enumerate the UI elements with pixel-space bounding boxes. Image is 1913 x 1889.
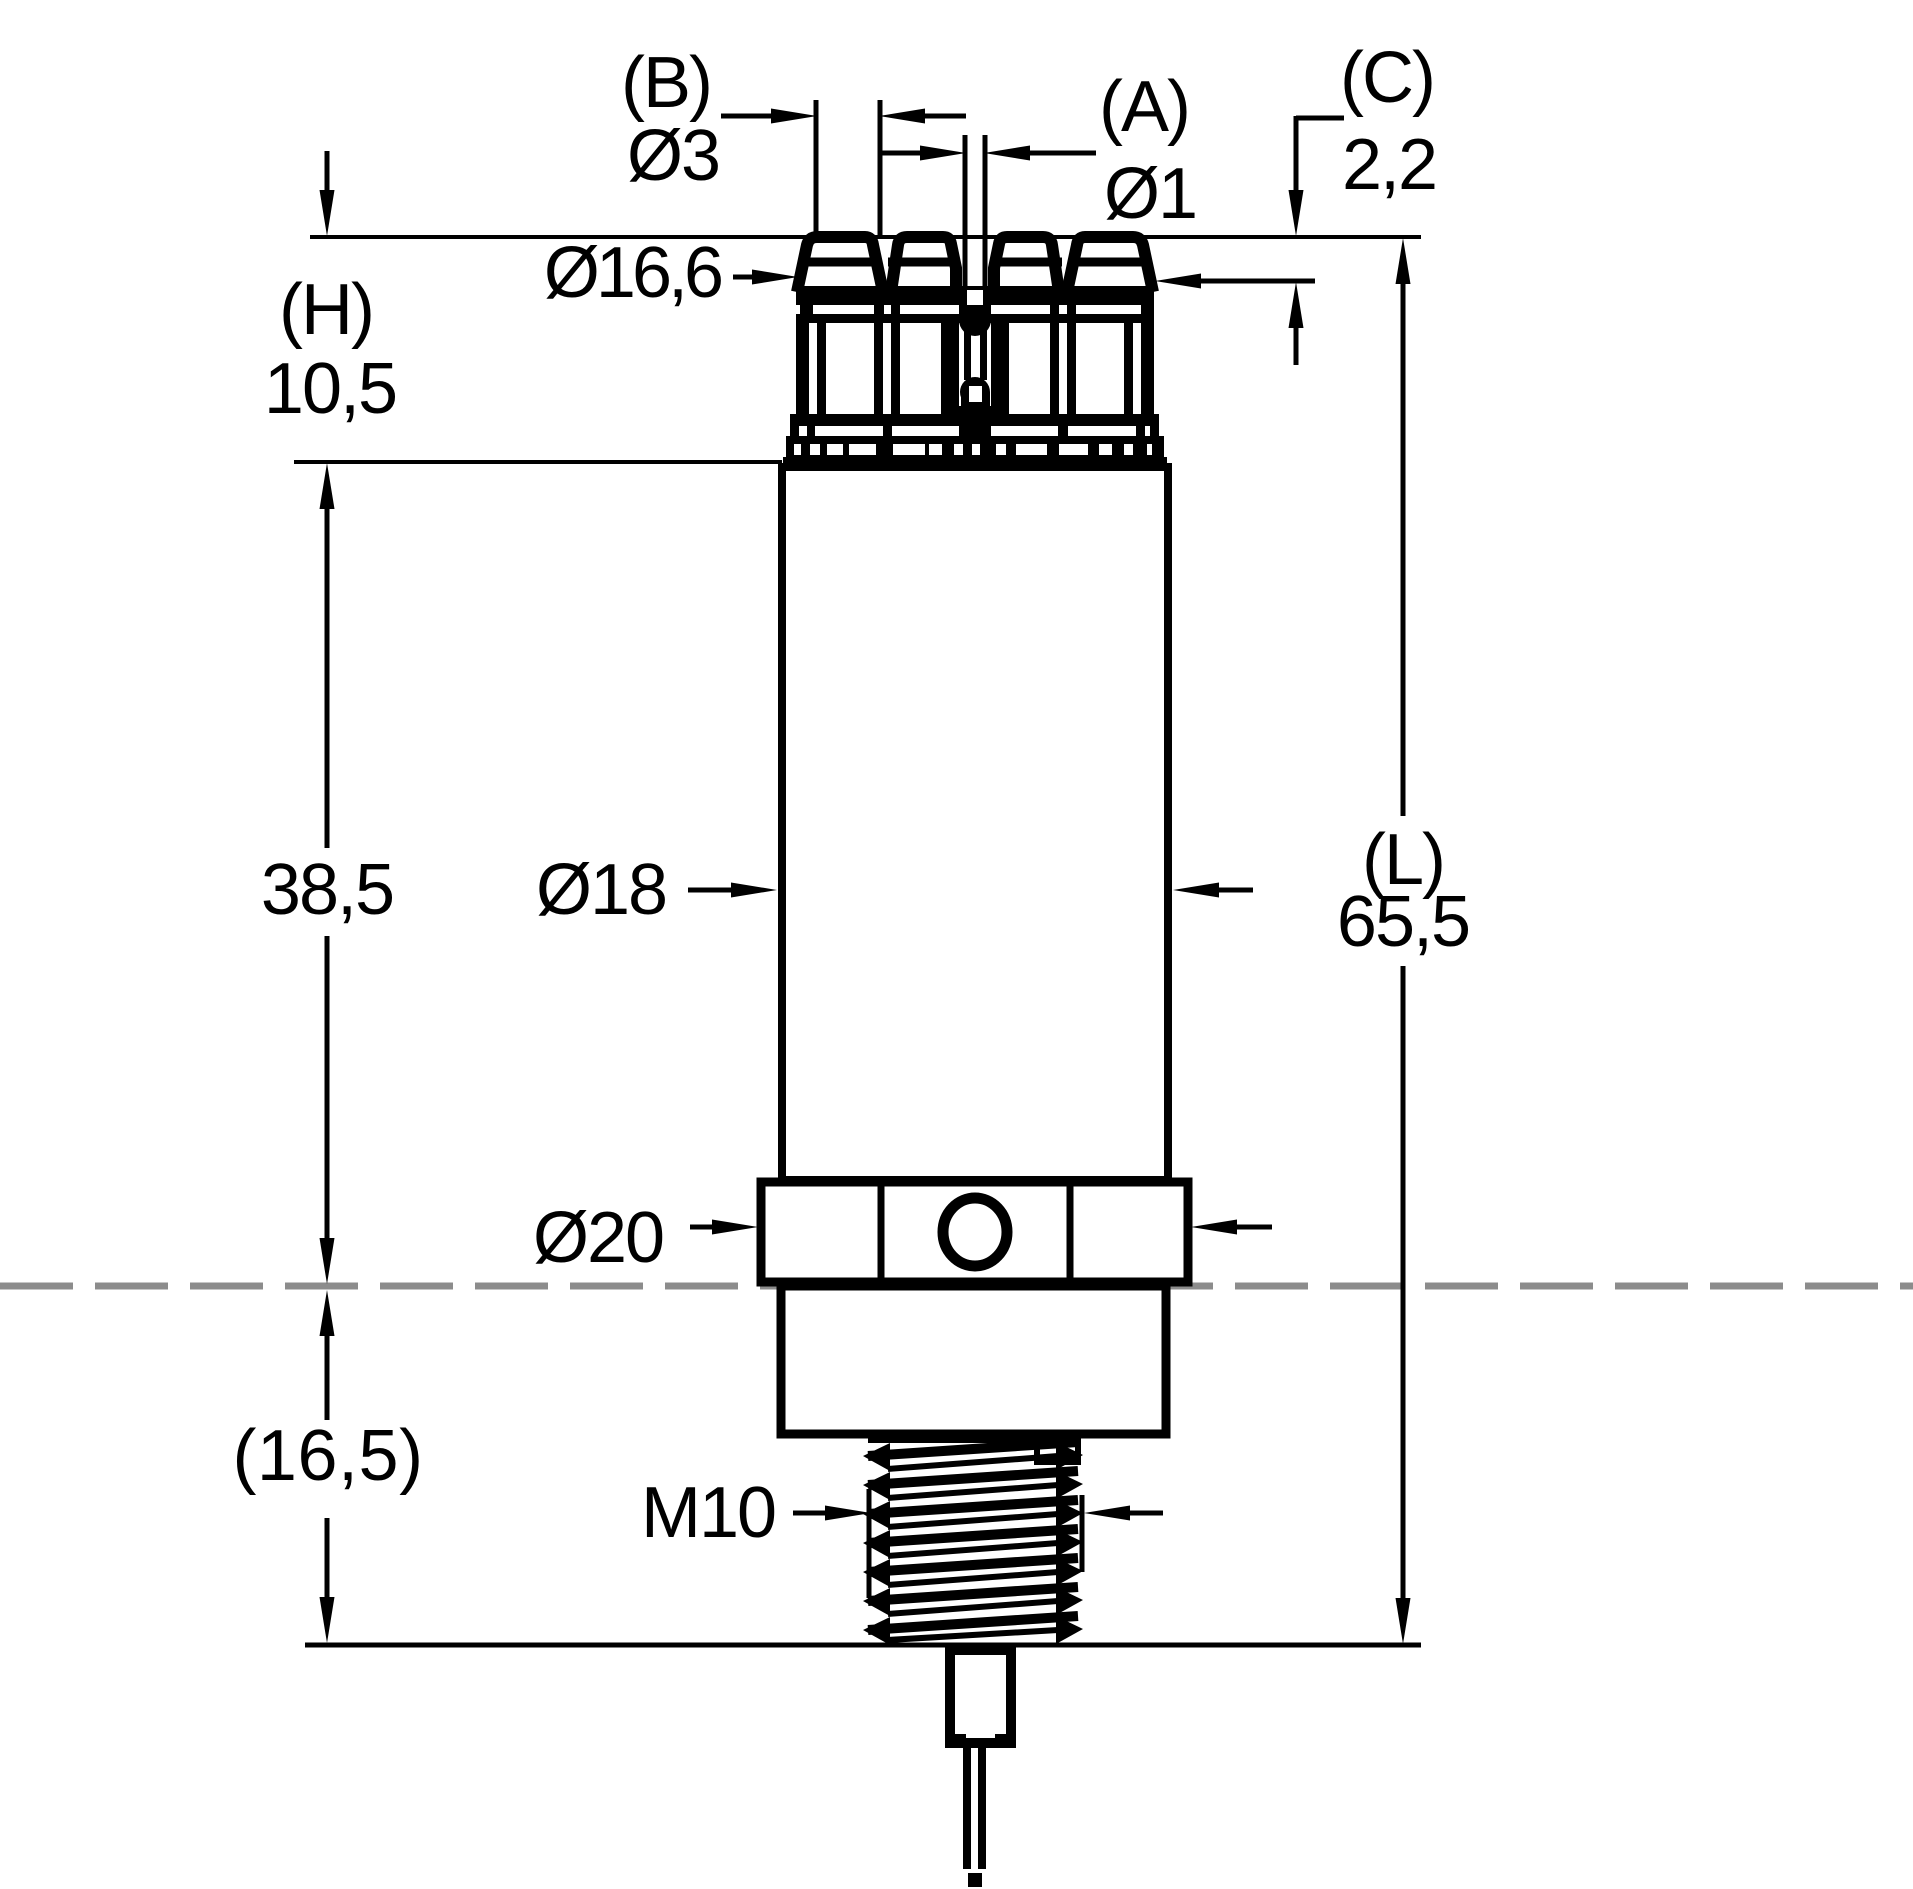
left dimension line 38,5 bbox=[261, 463, 393, 1284]
left dimension line upper arrow (H) bbox=[320, 151, 335, 236]
dimension (H) 10,5 label bbox=[264, 270, 396, 429]
collet crown domes bbox=[797, 237, 1153, 292]
dimension Ø20 label and arrows bbox=[533, 1198, 1272, 1278]
svg-text:(A): (A) bbox=[1099, 67, 1189, 147]
dimension (B) Ø3 arrows bbox=[721, 109, 966, 124]
svg-text:38,5: 38,5 bbox=[261, 850, 393, 930]
svg-text:Ø18: Ø18 bbox=[536, 850, 666, 930]
left dimension line (16,5) bbox=[232, 1290, 423, 1643]
svg-text:Ø1: Ø1 bbox=[1104, 154, 1196, 234]
dimension (B) Ø3 extension lines bbox=[816, 100, 880, 235]
collet fingers bbox=[796, 322, 1154, 416]
dimension (A) Ø1 label bbox=[1099, 67, 1196, 234]
collet base rings bbox=[783, 414, 1167, 470]
thread M10 crest lines bbox=[868, 1442, 1078, 1630]
center electrode pin beads bbox=[957, 288, 994, 417]
sensor body Ø18 bbox=[782, 467, 1168, 1180]
svg-text:(H): (H) bbox=[279, 270, 373, 350]
dimension (B) Ø3 label bbox=[621, 43, 719, 196]
center electrode pin upper wire bbox=[965, 135, 985, 290]
svg-text:(16,5): (16,5) bbox=[232, 1416, 423, 1496]
thread M10 left flank teeth bbox=[863, 1443, 890, 1645]
mounting plane dashed line bbox=[0, 1283, 1913, 1290]
dimension Ø16,6 label and arrows bbox=[544, 233, 1315, 313]
thread M10 root lines bbox=[888, 1456, 1058, 1640]
dimension (A) Ø1 arrows bbox=[882, 146, 1096, 161]
collet crown thick band bbox=[796, 286, 1154, 323]
dimension Ø18 label and arrows bbox=[536, 850, 1253, 930]
svg-text:Ø3: Ø3 bbox=[627, 116, 719, 196]
svg-text:2,2: 2,2 bbox=[1342, 125, 1436, 205]
collet crown horizontal rib line bbox=[799, 258, 1151, 267]
svg-text:(C): (C) bbox=[1340, 38, 1434, 118]
dimension (C) 2,2 elbow and arrows bbox=[1289, 116, 1345, 365]
hex collar Ø20 bbox=[761, 1178, 1188, 1286]
lower body below collar bbox=[781, 1286, 1166, 1434]
thread M10 top step bbox=[868, 1440, 1078, 1462]
thread M10 right flank teeth bbox=[1056, 1442, 1083, 1644]
svg-text:M10: M10 bbox=[641, 1473, 775, 1553]
collar side hole bbox=[943, 1198, 1007, 1266]
svg-text:10,5: 10,5 bbox=[264, 349, 396, 429]
top extension line bbox=[310, 235, 1421, 239]
dimension (C) 2,2 label bbox=[1340, 38, 1436, 205]
svg-text:65,5: 65,5 bbox=[1337, 882, 1469, 962]
dimension M10 label and arrows bbox=[641, 1473, 1163, 1598]
tip electrode needle bbox=[963, 1744, 986, 1887]
right dimension line (L) 65,5 bbox=[1337, 238, 1469, 1644]
bottom extension line bbox=[305, 1643, 1421, 1648]
svg-text:Ø16,6: Ø16,6 bbox=[544, 233, 721, 313]
svg-text:Ø20: Ø20 bbox=[533, 1198, 663, 1278]
svg-text:(B): (B) bbox=[621, 43, 711, 123]
tip electrode upper segment bbox=[950, 1650, 1011, 1746]
shoulder extension line (H) bbox=[294, 460, 782, 464]
